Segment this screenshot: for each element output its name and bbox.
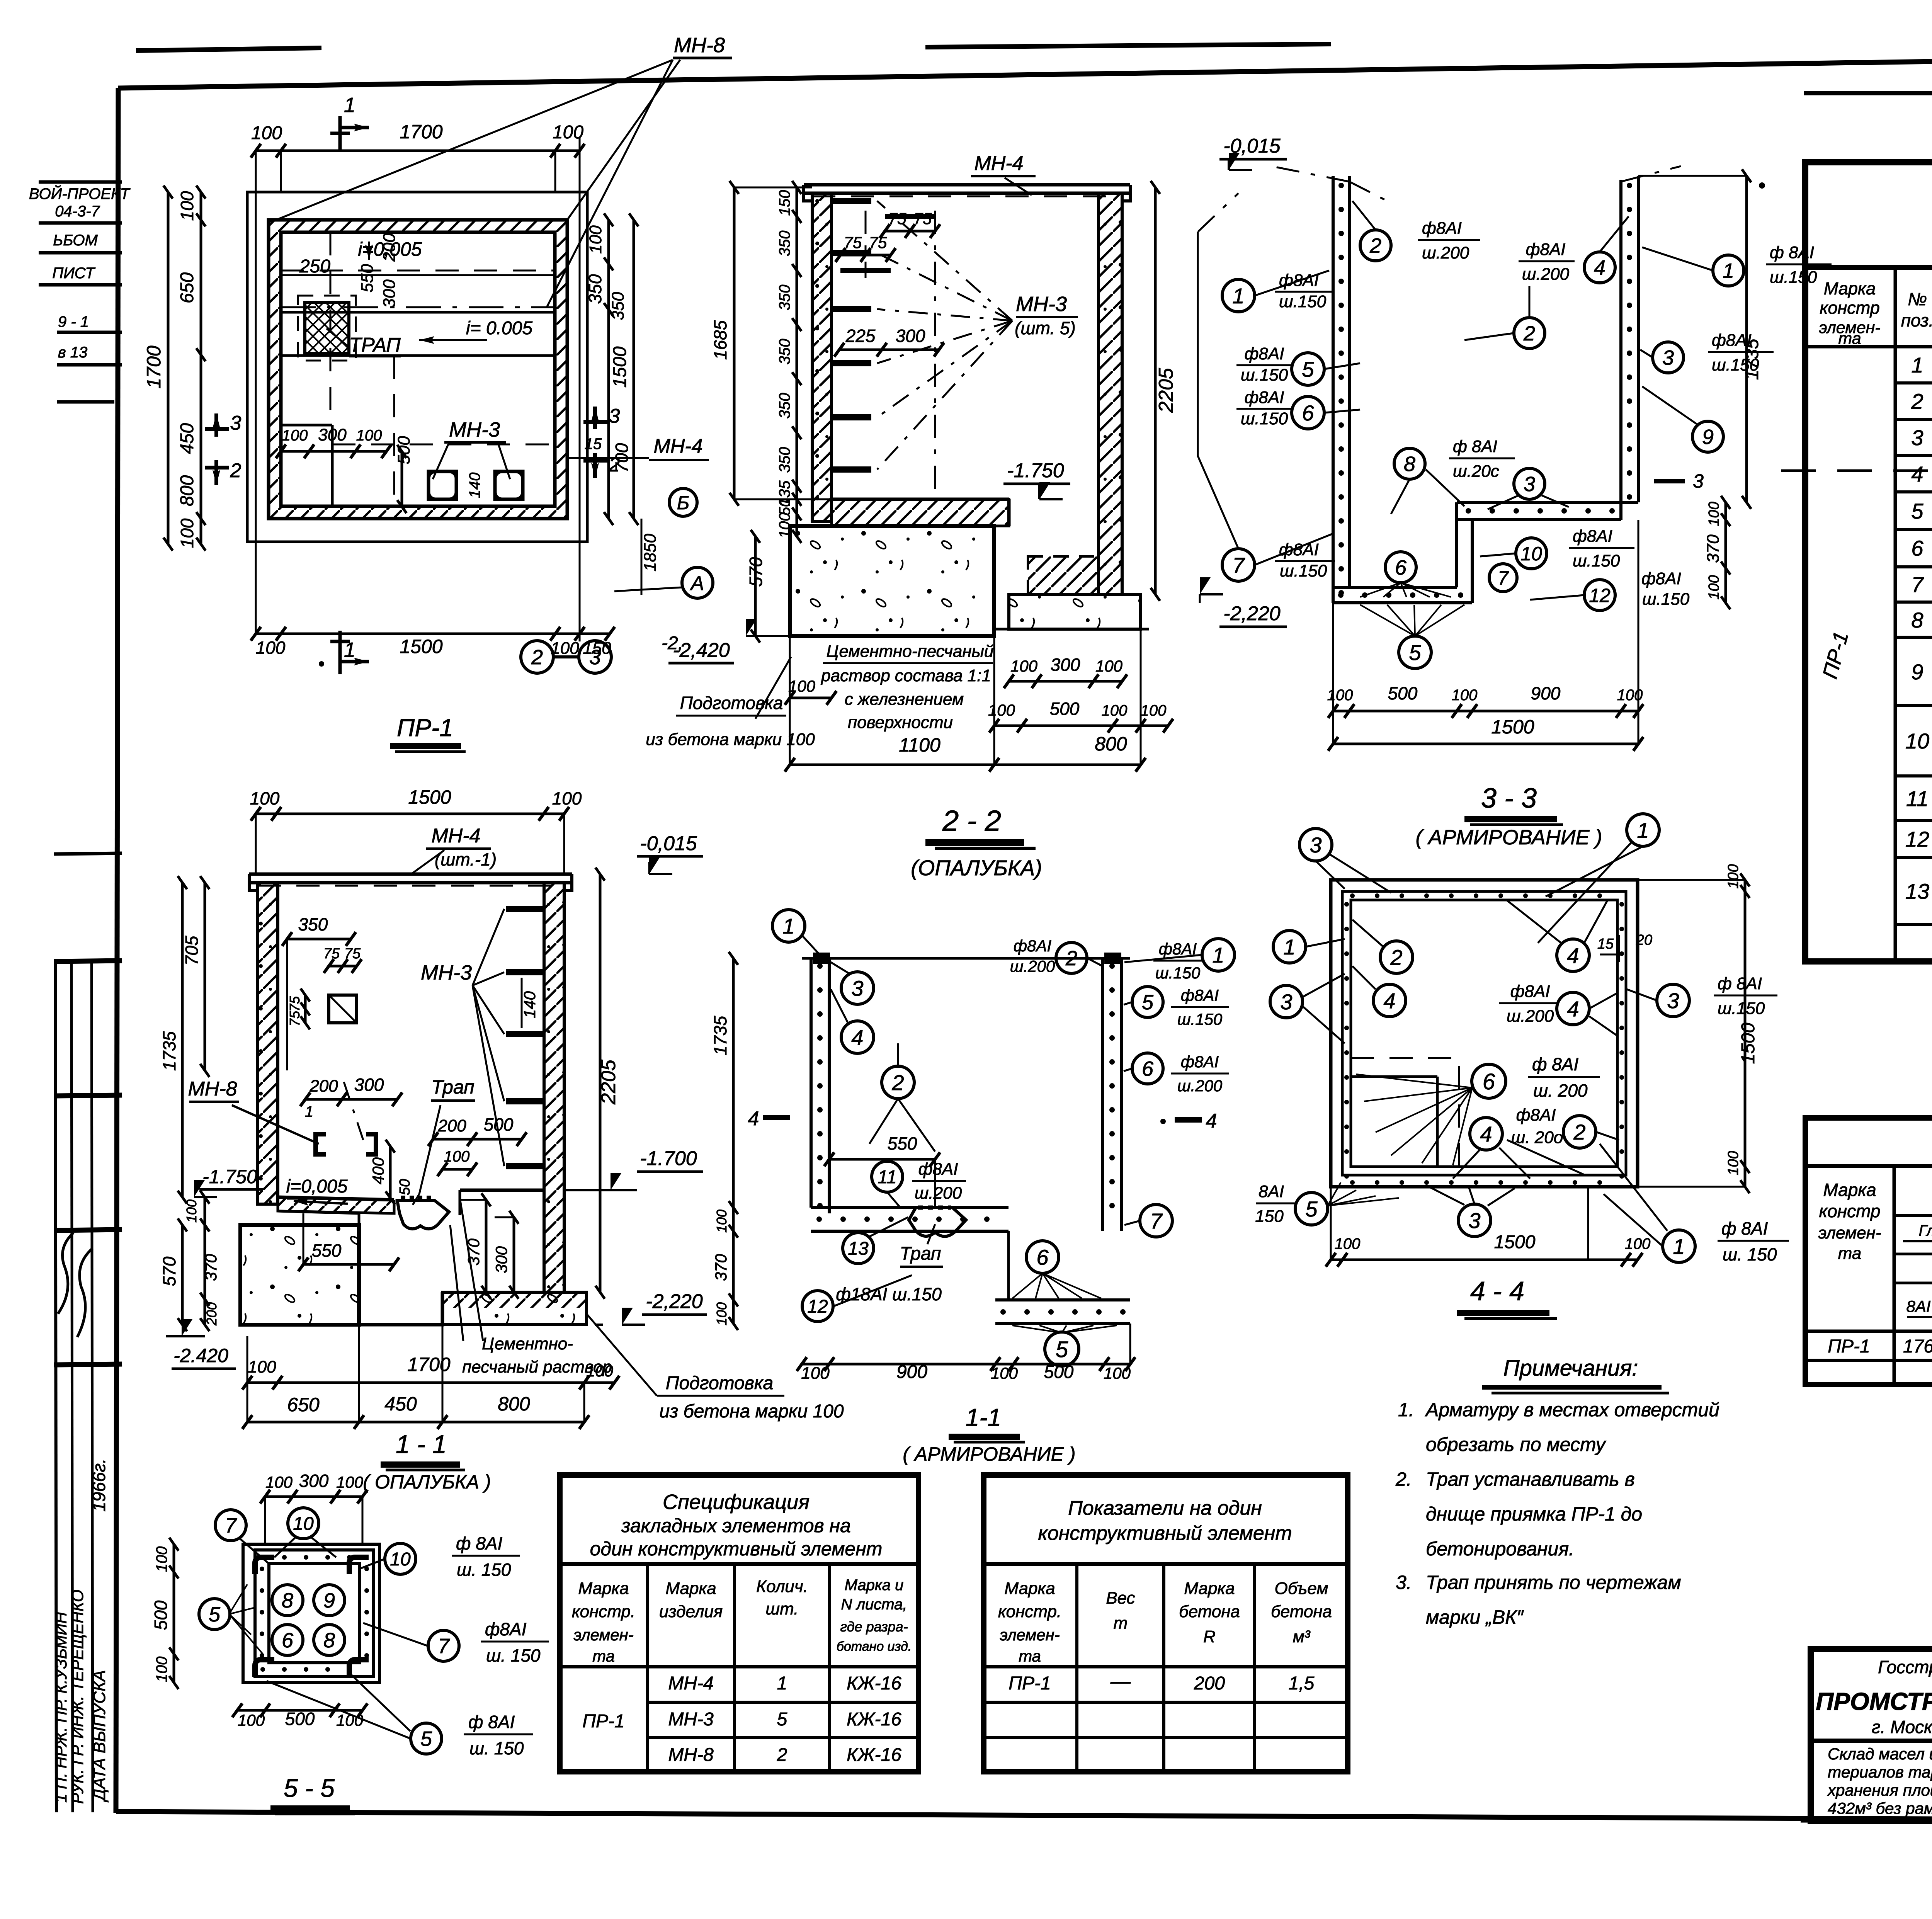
svg-text:3: 3 xyxy=(230,412,241,434)
svg-text:9: 9 xyxy=(323,1589,335,1612)
svg-text:ш.200: ш.200 xyxy=(1010,957,1055,975)
embedded parts specification table xyxy=(560,1475,918,1772)
svg-text:800: 800 xyxy=(498,1393,530,1415)
svg-text:ш.150: ш.150 xyxy=(1280,561,1327,580)
svg-text:МН-3: МН-3 xyxy=(1016,293,1067,316)
3-3 floor band xyxy=(1457,501,1638,504)
svg-text:15: 15 xyxy=(1597,936,1614,952)
1-1arm section mark 4 right xyxy=(1175,1117,1202,1123)
svg-text:один конструктивный элемент: один конструктивный элемент xyxy=(590,1538,883,1560)
svg-text:13: 13 xyxy=(1905,879,1929,903)
svg-text:1 - 1: 1 - 1 xyxy=(396,1430,447,1458)
1-1op step to right slab xyxy=(359,1292,442,1325)
section 2-2 right wall xyxy=(1099,193,1122,594)
2-2 extension verticals xyxy=(993,636,995,765)
svg-text:75: 75 xyxy=(844,233,862,252)
svg-text:100: 100 xyxy=(552,788,582,808)
svg-text:100: 100 xyxy=(177,191,197,221)
svg-text:100: 100 xyxy=(265,1473,293,1491)
svg-text:7: 7 xyxy=(438,1635,450,1658)
svg-text:100: 100 xyxy=(1706,575,1722,599)
axis circle B xyxy=(669,488,697,516)
plan PR-1 interior step line xyxy=(281,424,332,427)
section 2-2 foundation block xyxy=(790,526,994,636)
2-2 dim 570 xyxy=(754,536,757,636)
plan section marks 3 2 right xyxy=(593,407,597,429)
svg-text:Трап: Трап xyxy=(431,1076,474,1098)
sheet frame left edge xyxy=(116,88,118,1813)
svg-text:1735: 1735 xyxy=(710,1016,730,1055)
svg-text:(шт. 5): (шт. 5) xyxy=(1015,318,1076,338)
svg-text:7: 7 xyxy=(1498,567,1509,589)
plan view PR-1 outer excavation outline xyxy=(247,192,587,542)
svg-text:3: 3 xyxy=(589,646,601,669)
3-3 callout circle 3 lower xyxy=(1514,468,1545,499)
svg-text:5: 5 xyxy=(1305,1197,1318,1221)
svg-text:75: 75 xyxy=(323,946,340,962)
5-5 left dims 100 500 100 xyxy=(173,1544,175,1683)
dims 200 500 row xyxy=(433,1138,522,1141)
1-1op top cover plate MN-4 xyxy=(249,873,572,876)
svg-text:Марка и: Марка и xyxy=(845,1577,904,1594)
4-4 circle 5 bottom-left with label xyxy=(1295,1193,1328,1225)
plan PR-1 interior vertical dashed lines xyxy=(330,232,332,425)
svg-text:500: 500 xyxy=(285,1709,315,1729)
svg-text:ф18АI ш.150: ф18АI ш.150 xyxy=(836,1284,942,1304)
3-3 callout circle 12 xyxy=(1584,580,1615,611)
svg-text:ф 8АI: ф 8АI xyxy=(1453,437,1497,456)
svg-text:8: 8 xyxy=(1911,608,1923,632)
svg-text:ф8АI: ф8АI xyxy=(1516,1106,1556,1125)
svg-text:1: 1 xyxy=(1911,353,1923,377)
1-1arm circle 6 right with label xyxy=(1132,1053,1163,1084)
svg-text:6: 6 xyxy=(1483,1069,1495,1094)
4-4 circle 1 bottom-right with label xyxy=(1663,1230,1695,1262)
svg-text:5: 5 xyxy=(1302,357,1314,381)
svg-text:бетона: бетона xyxy=(1271,1602,1332,1621)
svg-text:ш. 150: ш. 150 xyxy=(457,1560,511,1580)
svg-text:6: 6 xyxy=(1395,556,1407,579)
1-1arm bottom-left slab band xyxy=(811,1206,1009,1209)
plan right dimension chain xyxy=(607,220,610,519)
3-3 right rebar curtain xyxy=(1619,180,1622,520)
svg-text:1735: 1735 xyxy=(1742,339,1762,380)
4-4 circle 3 left xyxy=(1270,985,1303,1018)
svg-text:констр: констр xyxy=(1820,298,1880,318)
svg-text:Марка: Марка xyxy=(665,1579,716,1598)
svg-text:300: 300 xyxy=(354,1075,384,1095)
plan axis circles 2 3 bottom xyxy=(521,641,553,673)
4-4 circle 4 bottom xyxy=(1470,1118,1502,1150)
4-4 rebar ring inner xyxy=(1351,900,1617,1167)
2-2 anchor axis dash-dot vertical xyxy=(934,211,936,498)
svg-text:ф8АI: ф8АI xyxy=(485,1619,527,1639)
svg-text:370: 370 xyxy=(202,1254,220,1281)
svg-text:432м³ без рампы.: 432м³ без рампы. xyxy=(1828,1799,1932,1817)
svg-text:1500: 1500 xyxy=(1491,716,1534,738)
svg-text:5 - 5: 5 - 5 xyxy=(284,1774,335,1802)
svg-text:Объем: Объем xyxy=(1275,1579,1328,1598)
svg-text:Б: Б xyxy=(677,492,690,514)
svg-text:1700: 1700 xyxy=(400,121,442,143)
4-4 circle 3 right with label xyxy=(1657,984,1689,1017)
1-1op right floor line xyxy=(460,1189,544,1192)
svg-text:Колич.: Колич. xyxy=(756,1577,808,1596)
svg-text:3: 3 xyxy=(609,405,620,427)
5-5 circle 7 top-left xyxy=(215,1510,246,1541)
svg-text:140: 140 xyxy=(466,473,483,498)
svg-text:ПИСТ: ПИСТ xyxy=(52,265,95,282)
svg-text:-0,015: -0,015 xyxy=(640,832,697,855)
svg-text:( ОПАЛУБКА ): ( ОПАЛУБКА ) xyxy=(363,1471,491,1493)
svg-text:100: 100 xyxy=(1335,1235,1361,1252)
svg-text:КЖ-16: КЖ-16 xyxy=(847,1745,901,1765)
plan PR-1 trap square crosshatch xyxy=(305,303,349,354)
svg-text:300: 300 xyxy=(299,1471,329,1491)
svg-text:100: 100 xyxy=(336,1711,364,1729)
svg-text:ш.200: ш.200 xyxy=(1507,1007,1554,1026)
svg-text:200: 200 xyxy=(309,1077,338,1096)
svg-text:ш. 200: ш. 200 xyxy=(1533,1080,1588,1101)
svg-text:100: 100 xyxy=(1625,1235,1651,1252)
2-2 dims 100 500 100 100 xyxy=(994,725,1168,727)
svg-text:11: 11 xyxy=(878,1167,897,1187)
embedded table rows xyxy=(648,1701,918,1704)
svg-text:2: 2 xyxy=(531,646,543,669)
svg-text:100: 100 xyxy=(988,701,1015,719)
svg-text:г. Москва- 19 66г.: г. Москва- 19 66г. xyxy=(1872,1717,1932,1737)
dim 100 small xyxy=(442,1168,472,1171)
svg-text:—: — xyxy=(1110,1670,1131,1693)
4-4 circle 6 center with fan xyxy=(1472,1064,1506,1098)
1-1arm bottom dims 100 900 100 500 100 xyxy=(802,1363,1130,1366)
svg-text:МН-3: МН-3 xyxy=(668,1709,714,1730)
1-1arm top line xyxy=(802,957,1130,960)
svg-text:13: 13 xyxy=(848,1239,869,1259)
svg-text:МН-4: МН-4 xyxy=(668,1673,713,1694)
svg-text:днище приямка ПР-1 до: днище приямка ПР-1 до xyxy=(1426,1503,1642,1525)
svg-text:12: 12 xyxy=(807,1296,828,1317)
svg-text:Арматуру в местах отверстий: Арматуру в местах отверстий xyxy=(1425,1399,1719,1421)
2-2 left dimension chain xyxy=(796,187,798,536)
svg-text:6: 6 xyxy=(1036,1245,1049,1269)
3-3 pocket bottom band xyxy=(1333,586,1457,589)
3-3 top dash-dot hip lines xyxy=(1271,166,1349,182)
svg-text:А: А xyxy=(690,572,704,595)
svg-text:ПР-1: ПР-1 xyxy=(582,1711,624,1732)
svg-text:1700: 1700 xyxy=(143,345,165,388)
svg-text:МН-8: МН-8 xyxy=(668,1745,714,1765)
svg-text:ф8АI: ф8АI xyxy=(1245,388,1284,407)
svg-text:176: 176 xyxy=(1903,1336,1932,1357)
4-4 circle 4 top-center xyxy=(1557,939,1589,971)
svg-text:ш.200: ш.200 xyxy=(915,1184,962,1203)
svg-text:Цементно-песчаный: Цементно-песчаный xyxy=(827,642,994,661)
left stamp boxes column xyxy=(54,853,122,854)
svg-text:ПР-1: ПР-1 xyxy=(397,714,453,742)
svg-text:8: 8 xyxy=(323,1629,335,1652)
svg-text:бетона: бетона xyxy=(1179,1602,1240,1621)
svg-text:5: 5 xyxy=(420,1727,432,1751)
svg-text:ш.200: ш.200 xyxy=(1522,265,1570,284)
1-1arm circle 5 bottom with fan xyxy=(1045,1332,1079,1366)
svg-text:10: 10 xyxy=(390,1549,411,1570)
svg-text:15: 15 xyxy=(585,436,602,453)
svg-text:ш. 150: ш. 150 xyxy=(486,1645,541,1666)
svg-text:100: 100 xyxy=(714,1302,730,1325)
5-5 circle 10 top xyxy=(288,1508,319,1539)
3-3 bottom dims xyxy=(1333,710,1638,713)
svg-text:9: 9 xyxy=(1702,425,1714,449)
svg-text:500: 500 xyxy=(151,1600,171,1630)
svg-text:10: 10 xyxy=(293,1514,314,1534)
svg-text:изделия: изделия xyxy=(659,1602,723,1621)
svg-text:500: 500 xyxy=(395,436,413,464)
svg-text:3: 3 xyxy=(1667,988,1679,1013)
anchor MN-3 marks on right wall of 1-1op xyxy=(506,906,543,912)
svg-text:11: 11 xyxy=(1906,786,1929,811)
svg-text:ш.150: ш.150 xyxy=(1241,366,1288,384)
svg-text:4: 4 xyxy=(851,1025,863,1050)
2-2 dims 100 300 100 under right portion xyxy=(1009,680,1122,683)
4-4 bottom dim chain xyxy=(1331,1259,1638,1261)
svg-text:2: 2 xyxy=(1065,947,1077,970)
svg-text:констр: констр xyxy=(1819,1201,1880,1221)
svg-text:поз.: поз. xyxy=(1901,310,1932,330)
svg-text:ш.150: ш.150 xyxy=(1573,551,1620,570)
svg-text:8: 8 xyxy=(282,1589,293,1612)
spec table header row xyxy=(1894,267,1897,961)
1-1op left floor line xyxy=(278,1197,394,1200)
svg-text:ш.20с: ш.20с xyxy=(1453,462,1499,481)
dims 200 300 in 1-1op xyxy=(305,1098,397,1101)
svg-text:ф8АI: ф8АI xyxy=(1641,569,1681,588)
4-4 circle 1 left xyxy=(1273,931,1306,963)
svg-text:2: 2 xyxy=(1911,389,1923,413)
svg-text:2: 2 xyxy=(1573,1120,1585,1144)
svg-text:300: 300 xyxy=(896,326,925,346)
3-3 callout circle 2 mid xyxy=(1514,318,1545,349)
svg-text:(шт.-1): (шт.-1) xyxy=(435,849,497,869)
svg-text:350: 350 xyxy=(776,393,793,419)
svg-text:Примечания:: Примечания: xyxy=(1503,1356,1638,1381)
svg-text:ш.150: ш.150 xyxy=(1770,268,1817,287)
svg-text:i= 0.005: i= 0.005 xyxy=(466,318,532,339)
svg-text:ф 8АI: ф 8АI xyxy=(1721,1218,1768,1239)
svg-text:100: 100 xyxy=(1706,502,1722,526)
svg-text:300: 300 xyxy=(492,1246,510,1273)
svg-text:ф 8АI: ф 8АI xyxy=(1532,1054,1578,1074)
5-5 circle 10 right with label xyxy=(385,1543,416,1574)
svg-text:8: 8 xyxy=(1404,453,1415,476)
svg-text:МН-4: МН-4 xyxy=(653,435,702,458)
svg-text:5: 5 xyxy=(209,1603,221,1626)
plan left dimension 1700 outer xyxy=(167,192,170,544)
svg-text:6: 6 xyxy=(282,1629,294,1652)
svg-text:7: 7 xyxy=(225,1514,237,1537)
svg-text:300: 300 xyxy=(318,425,347,444)
svg-text:650: 650 xyxy=(177,272,197,303)
svg-text:100: 100 xyxy=(776,513,793,539)
svg-text:из бетона марки 100: из бетона марки 100 xyxy=(659,1401,844,1422)
svg-text:2: 2 xyxy=(891,1070,904,1095)
svg-text:ПРОМСТРОЙПРОЕКТ: ПРОМСТРОЙПРОЕКТ xyxy=(1816,1687,1932,1715)
svg-text:200: 200 xyxy=(1194,1673,1225,1694)
1-1arm left rebar curtain xyxy=(810,958,813,1208)
svg-text:3: 3 xyxy=(1468,1208,1480,1233)
specification of armature table xyxy=(1805,162,1932,961)
3-3 callout circle 3 mid-right xyxy=(1653,342,1684,373)
svg-text:04-3-7: 04-3-7 xyxy=(55,203,100,220)
1-1op bottom dims 100 1700 100 xyxy=(247,1381,614,1384)
svg-text:ф8АI: ф8АI xyxy=(1526,240,1566,259)
5-5 outer square xyxy=(243,1544,379,1683)
svg-text:3: 3 xyxy=(1310,833,1321,857)
svg-text:3: 3 xyxy=(1662,346,1674,369)
5-5 circle 5 left with fan xyxy=(199,1599,230,1630)
svg-text:ш.150: ш.150 xyxy=(1718,999,1765,1018)
4-4 rebar dots around ring xyxy=(1350,893,1355,898)
4-4 circle 4 center-left xyxy=(1373,984,1406,1017)
svg-text:констр.: констр. xyxy=(998,1602,1061,1621)
1-1op dim 2205 right xyxy=(599,874,602,1292)
svg-text:350: 350 xyxy=(776,339,793,365)
plan top extension lines xyxy=(255,151,257,634)
2-2 bottom small dims 100 xyxy=(790,697,832,699)
indicators table (pokazateli) xyxy=(984,1475,1348,1772)
svg-text:6: 6 xyxy=(1302,401,1314,425)
section 2-2 interior step xyxy=(1007,499,1011,526)
svg-text:ф8АI: ф8АI xyxy=(918,1160,958,1179)
svg-text:10: 10 xyxy=(1520,543,1542,565)
svg-text:250: 250 xyxy=(299,256,330,277)
svg-text:100: 100 xyxy=(336,1473,364,1491)
svg-text:2: 2 xyxy=(777,1745,787,1765)
callout boundary polyline left of 3-3 xyxy=(1198,232,1238,549)
5-5 bottom dims 100 500 100 xyxy=(237,1709,362,1712)
1-1op right lower slab xyxy=(442,1292,587,1325)
svg-text:570: 570 xyxy=(746,557,766,587)
svg-text:100: 100 xyxy=(1452,687,1478,704)
svg-text:-1.700: -1.700 xyxy=(640,1147,697,1170)
3-3 callout circle 5 with fan xyxy=(1399,636,1431,669)
svg-text:75: 75 xyxy=(287,1011,303,1026)
4-4 outer square xyxy=(1331,880,1638,1187)
1-1arm circle 3 left xyxy=(841,972,874,1004)
svg-text:ф8АI: ф8АI xyxy=(1422,219,1462,238)
svg-text:ЬБОМ: ЬБОМ xyxy=(53,232,98,249)
svg-text:5: 5 xyxy=(777,1709,787,1730)
svg-text:800: 800 xyxy=(177,475,197,506)
svg-text:650: 650 xyxy=(287,1394,320,1415)
svg-text:с железнением: с железнением xyxy=(845,690,964,709)
1-1arm circle 5 right with label xyxy=(1132,987,1163,1017)
5-5 ring rebar dots xyxy=(260,1555,265,1560)
2-2 right dim 2205 xyxy=(1154,187,1157,594)
plan PR-1 wall inner face xyxy=(281,232,555,506)
svg-text:та: та xyxy=(592,1647,615,1665)
svg-text:100: 100 xyxy=(1102,702,1128,719)
svg-text:350: 350 xyxy=(298,914,328,934)
1-1arm circle 2 center xyxy=(882,1066,914,1099)
svg-text:ш.150: ш.150 xyxy=(1241,409,1288,428)
1-1arm circle 1 left xyxy=(772,910,805,942)
svg-text:8АI: 8АI xyxy=(1906,1297,1930,1315)
svg-text:КЖ-16: КЖ-16 xyxy=(847,1709,901,1730)
svg-text:370: 370 xyxy=(1704,534,1723,563)
3-3 callout circle 10 xyxy=(1516,538,1547,569)
5-5 corner bars thick xyxy=(255,1557,274,1574)
svg-text:где разра-: где разра- xyxy=(840,1619,908,1635)
svg-text:550: 550 xyxy=(888,1133,917,1153)
svg-text:4 - 4: 4 - 4 xyxy=(1470,1276,1524,1306)
svg-text:ш.150: ш.150 xyxy=(1642,590,1690,609)
5-5 circle 5 bottom-right with label xyxy=(411,1723,442,1754)
1-1op left wall xyxy=(258,883,278,1204)
plan right dim 1500 xyxy=(633,220,635,519)
svg-text:ш. 20о: ш. 20о xyxy=(1511,1128,1563,1147)
svg-text:800: 800 xyxy=(1095,733,1127,755)
svg-text:150: 150 xyxy=(776,190,793,216)
1-1op trap drain S-shape xyxy=(397,1200,449,1229)
svg-text:1500: 1500 xyxy=(1738,1022,1759,1064)
2-2 dim 225 300 xyxy=(839,349,939,351)
svg-text:6: 6 xyxy=(1911,536,1923,560)
1-1op dim 550 xyxy=(303,1263,394,1266)
svg-text:1: 1 xyxy=(305,1103,313,1120)
1-1arm dim 550 xyxy=(829,1158,935,1161)
svg-text:5: 5 xyxy=(1911,499,1923,523)
svg-text:Марка: Марка xyxy=(1824,279,1876,298)
svg-text:4: 4 xyxy=(748,1108,759,1130)
svg-text:1500: 1500 xyxy=(1494,1232,1536,1252)
svg-text:2: 2 xyxy=(1390,945,1402,970)
svg-text:поверхности: поверхности xyxy=(848,713,953,732)
vyborka marka column xyxy=(1893,1166,1896,1385)
3-3 callout circle 1 top-right xyxy=(1713,255,1744,286)
svg-text:100: 100 xyxy=(1104,1364,1131,1382)
svg-text:100: 100 xyxy=(1095,657,1123,675)
svg-text:5: 5 xyxy=(1142,991,1154,1014)
4-4 inner dashed open pit outline xyxy=(1351,1058,1459,1167)
svg-text:констр.: констр. xyxy=(572,1602,635,1621)
svg-text:100: 100 xyxy=(1141,702,1167,719)
svg-text:-2,220: -2,220 xyxy=(646,1290,703,1313)
svg-text:1685: 1685 xyxy=(710,320,730,360)
svg-text:( АРМИРОВАНИЕ ): ( АРМИРОВАНИЕ ) xyxy=(1416,826,1602,849)
section 2-2 right lower slab xyxy=(1009,594,1141,629)
svg-text:50: 50 xyxy=(397,1179,413,1195)
plan left dimension chain inner xyxy=(200,192,202,544)
axis circle A xyxy=(682,567,713,598)
svg-text:1966г.: 1966г. xyxy=(89,1458,109,1512)
1-1op top dims 100 1500 100 xyxy=(256,813,564,815)
svg-text:МН-4: МН-4 xyxy=(974,152,1023,175)
svg-text:1500: 1500 xyxy=(610,346,630,388)
svg-text:2.: 2. xyxy=(1395,1468,1412,1490)
svg-text:ф8АI: ф8АI xyxy=(1510,982,1550,1001)
vyborka data row xyxy=(1805,1330,1932,1333)
svg-text:РУК. ГР. ИНЖ. ТЕРЕЩЕНКО: РУК. ГР. ИНЖ. ТЕРЕЩЕНКО xyxy=(68,1589,87,1804)
3-3 right dims 100 370 100 xyxy=(1725,502,1727,603)
section 2-2 top cover plate MN-4 xyxy=(804,183,1130,187)
svg-text:300: 300 xyxy=(380,279,399,308)
svg-text:7: 7 xyxy=(1232,553,1245,577)
svg-text:МН-3: МН-3 xyxy=(421,961,472,984)
svg-text:500: 500 xyxy=(1050,699,1080,719)
svg-text:100: 100 xyxy=(153,1657,170,1683)
svg-text:1: 1 xyxy=(1673,1234,1685,1259)
